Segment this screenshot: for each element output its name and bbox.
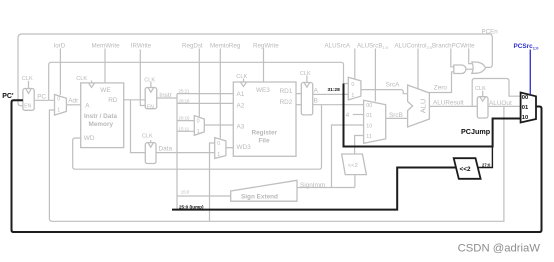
wire ALUSrcA select — [354, 49, 356, 80]
svg-text:CLK: CLK — [300, 71, 311, 77]
register PC — [23, 89, 34, 111]
mux MemtoReg — [215, 138, 226, 159]
svg-text:SignImm: SignImm — [300, 182, 325, 189]
op-amp style ALU — [408, 85, 430, 127]
svg-text:1: 1 — [351, 93, 354, 99]
svg-text:IRWrite: IRWrite — [131, 43, 152, 50]
wire PCSrc select blue — [529, 50, 531, 95]
wire B out to ALUSrcB mux input 00 — [313, 104, 364, 106]
svg-text:15:11: 15:11 — [179, 126, 190, 131]
wire MemtoReg mux out to WD3 — [226, 147, 233, 149]
wire instr 15:0 to Sign Extend — [177, 195, 231, 197]
shifter <<2 black — [454, 158, 481, 179]
svg-text:PCEn: PCEn — [482, 29, 499, 36]
svg-text:CLK: CLK — [236, 74, 247, 80]
svg-text:SrcA: SrcA — [386, 82, 401, 89]
svg-text:Zero: Zero — [434, 85, 448, 92]
register IR — [145, 88, 157, 109]
svg-text:WE3: WE3 — [256, 87, 270, 94]
svg-text:Instr: Instr — [159, 92, 172, 99]
wire instr 25:21 to A1 — [177, 93, 233, 95]
mux ALUSrcA — [348, 77, 361, 100]
wire Instr output to bus trunk — [157, 97, 177, 99]
svg-text:10: 10 — [366, 123, 372, 129]
svg-text:B: B — [314, 97, 318, 104]
wire constant 4 to ALUSrcB mux input 01 — [353, 114, 364, 116]
svg-text:31:28: 31:28 — [328, 87, 341, 93]
wire PC' black feedback: PCSrc mux out, down right side, along bottom, to PC input — [12, 100, 542, 232]
wire Branch drop to AND gate — [451, 49, 454, 67]
svg-text:25:0 (jump): 25:0 (jump) — [179, 204, 204, 209]
wire B to memory WD return bus — [73, 105, 322, 170]
wire instr 15:11 to RegDst mux input 1 — [177, 130, 194, 132]
wire SignImm up to ALUSrcB mux input 10 — [332, 125, 364, 188]
wire ALUControl drop — [417, 49, 419, 89]
svg-text:20:16: 20:16 — [179, 98, 191, 103]
svg-text:WE: WE — [100, 87, 110, 94]
svg-text:1: 1 — [217, 152, 220, 158]
svg-text:15:0: 15:0 — [181, 189, 190, 194]
or gate PCEn — [472, 62, 486, 73]
svg-text:PCSrc1:0: PCSrc1:0 — [514, 43, 540, 51]
wire instr 20:16 to RegDst mux input 0 — [177, 120, 194, 122]
register A/B — [301, 83, 312, 115]
wire black shifter out up to PCJump bus — [478, 148, 493, 168]
svg-text:Data: Data — [159, 145, 173, 152]
wire ALUSrcB select — [374, 49, 376, 102]
wire SignImm into shifter — [354, 175, 356, 188]
wire IorD select — [59, 49, 61, 96]
svg-text:RD: RD — [108, 97, 118, 104]
wire ALUResult to ALUOut register — [429, 105, 477, 107]
svg-text:10: 10 — [522, 115, 528, 121]
wire ALUOut register out to PCSrc mux input 01 — [488, 105, 521, 107]
svg-text:IorD: IorD — [54, 43, 66, 50]
svg-text:<<2: <<2 — [460, 166, 471, 173]
and gate Branch & Zero — [454, 65, 466, 74]
svg-text:A2: A2 — [237, 102, 245, 109]
svg-text:0: 0 — [351, 82, 354, 88]
wire PC to ALUSrcA mux input 0 — [49, 62, 349, 100]
wire RD1 to A register — [296, 93, 301, 95]
svg-text:EN: EN — [147, 105, 154, 111]
mux IorD — [55, 95, 67, 116]
svg-text:Memory: Memory — [89, 121, 114, 128]
svg-text:A3: A3 — [237, 123, 245, 130]
memory Instr/Data Memory — [81, 83, 124, 148]
svg-text:<<2: <<2 — [348, 163, 358, 169]
svg-text:CLK: CLK — [22, 76, 33, 82]
wire ALUResult tap to PCSrc mux input 00 — [472, 79, 520, 107]
register ALUOut — [477, 97, 488, 118]
wire RegDst mux out to A3 — [204, 124, 233, 126]
svg-text:ALU: ALU — [419, 99, 428, 114]
svg-text:PCJump: PCJump — [461, 127, 491, 136]
wire ALUSrcB mux out to ALU — [386, 117, 408, 119]
wire ALUOut tap to MemtoReg mux input 0 — [210, 143, 215, 221]
wire shifter out to ALUSrcB mux input 11 — [355, 136, 364, 155]
svg-text:CLK: CLK — [76, 76, 87, 82]
wire ALUSrcA mux out to ALU — [361, 90, 408, 94]
svg-text:CLK: CLK — [144, 78, 155, 84]
svg-text:CLK: CLK — [142, 133, 153, 139]
svg-text:Sign Extend: Sign Extend — [241, 193, 278, 200]
svg-text:WD3: WD3 — [237, 144, 252, 151]
svg-text:A: A — [314, 87, 319, 94]
svg-text:ALUSrcA: ALUSrcA — [325, 43, 351, 50]
svg-text:01: 01 — [522, 105, 529, 111]
shifter <<2 gray — [342, 154, 367, 175]
svg-text:ALUResult: ALUResult — [433, 100, 464, 107]
wire Data register out to MemtoReg mux input 1 — [156, 152, 215, 154]
svg-text:EN: EN — [24, 104, 31, 110]
svg-text:File: File — [259, 138, 270, 145]
wire RD2 to B register — [296, 104, 301, 106]
svg-text:ALUControl2:0: ALUControl2:0 — [395, 43, 433, 51]
wire 25:0 jump field to black shifter — [172, 168, 456, 210]
svg-text:CLK: CLK — [475, 86, 486, 92]
svg-text:11: 11 — [366, 134, 372, 140]
svg-text:27:0: 27:0 — [482, 163, 491, 168]
svg-text:0: 0 — [57, 97, 60, 103]
wire IRWrite drop to IR EN — [140, 50, 145, 106]
wire RegDst select — [198, 49, 200, 118]
svg-text:Adr: Adr — [68, 97, 79, 104]
svg-text:ALUOut: ALUOut — [489, 100, 512, 107]
svg-text:25:21: 25:21 — [179, 89, 191, 94]
svg-text:0: 0 — [217, 141, 220, 147]
svg-text:BranchPCWrite: BranchPCWrite — [432, 43, 475, 50]
svg-text:WD: WD — [84, 135, 95, 142]
svg-text:00: 00 — [522, 95, 528, 101]
wire PCEn net: OR output to PC EN — [18, 34, 492, 106]
wire PCWrite drop to OR gate — [469, 49, 473, 64]
svg-text:PC: PC — [37, 94, 46, 101]
wire MemtoReg select — [219, 49, 221, 139]
mux PCSrc — [521, 93, 536, 123]
wire Zero to AND gate — [429, 72, 454, 93]
svg-text:PC': PC' — [2, 93, 14, 100]
sign extend — [231, 180, 297, 201]
svg-text:MemtoReg: MemtoReg — [210, 43, 241, 50]
svg-text:4: 4 — [346, 112, 350, 119]
svg-text:RD2: RD2 — [280, 99, 293, 106]
wire RD branch down to Data register — [131, 100, 146, 153]
svg-text:00: 00 — [366, 103, 372, 109]
svg-text:A1: A1 — [237, 91, 245, 98]
wire instr field trunk — [176, 94, 178, 210]
wire RegWrite drop — [263, 49, 265, 83]
svg-text:01: 01 — [366, 113, 372, 119]
wire Adr: IorD mux out to memory A — [66, 104, 80, 106]
svg-text:MemWrite: MemWrite — [92, 43, 121, 50]
wire RD to IR — [124, 99, 146, 101]
svg-text:0: 0 — [197, 119, 200, 125]
register Data — [145, 143, 156, 164]
wire PCJump black: 31:28 concat down and right to PCSrc mux input 10 — [344, 84, 521, 147]
wire PC output to IorD mux input 0 — [34, 99, 54, 101]
svg-text:RegDst: RegDst — [182, 43, 203, 50]
wire MemWrite drop — [104, 49, 106, 83]
wire ALUOut return bus to IorD mux input 1 and MemtoReg mux input 0 — [49, 106, 504, 221]
svg-text:RegWrite: RegWrite — [253, 43, 279, 50]
svg-text:CSDN @adriaW: CSDN @adriaW — [458, 243, 541, 255]
svg-text:RD1: RD1 — [280, 88, 293, 95]
mux ALUSrcB — [364, 100, 386, 143]
svg-text:Instr / Data: Instr / Data — [84, 113, 117, 120]
svg-text:1: 1 — [197, 129, 200, 135]
svg-text:1: 1 — [57, 108, 60, 114]
svg-text:Register: Register — [252, 130, 278, 137]
mux RegDst — [194, 116, 204, 136]
wire AND out to OR gate — [466, 68, 473, 70]
wire A out to ALUSrcA mux input 1 — [313, 93, 349, 95]
wire SignImm bus — [297, 187, 355, 189]
svg-text:SrcB: SrcB — [389, 112, 403, 119]
wire instr 20:16 to A2 — [177, 102, 233, 104]
svg-text:ALUSrcB1:0: ALUSrcB1:0 — [357, 43, 389, 51]
svg-text:20:16: 20:16 — [179, 116, 191, 121]
svg-text:A: A — [85, 103, 90, 110]
register file — [233, 82, 296, 156]
